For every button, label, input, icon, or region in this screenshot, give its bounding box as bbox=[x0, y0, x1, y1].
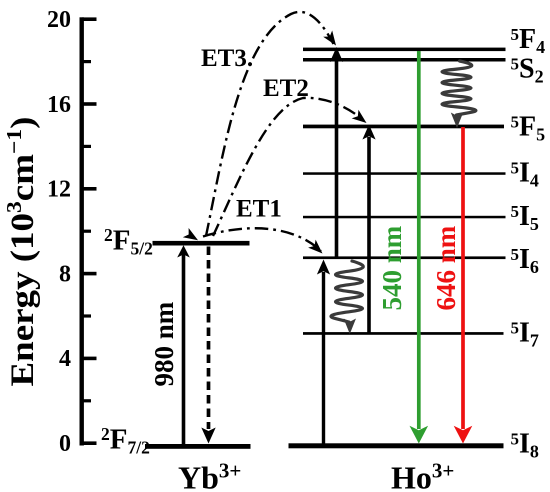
svg-text:20: 20 bbox=[47, 7, 71, 33]
svg-text:16: 16 bbox=[47, 92, 71, 118]
svg-text:Energy (103cm−1): Energy (103cm−1) bbox=[2, 117, 41, 387]
svg-text:ET2: ET2 bbox=[263, 75, 309, 102]
svg-text:ET1: ET1 bbox=[236, 196, 282, 223]
svg-text:540 nm: 540 nm bbox=[377, 225, 407, 310]
svg-text:8: 8 bbox=[59, 261, 71, 287]
svg-text:980 nm: 980 nm bbox=[149, 301, 179, 386]
svg-text:12: 12 bbox=[47, 177, 71, 203]
svg-text:ET3.: ET3. bbox=[201, 45, 253, 72]
svg-text:0: 0 bbox=[59, 431, 71, 457]
svg-text:646 nm: 646 nm bbox=[431, 225, 461, 310]
svg-text:4: 4 bbox=[59, 346, 71, 372]
